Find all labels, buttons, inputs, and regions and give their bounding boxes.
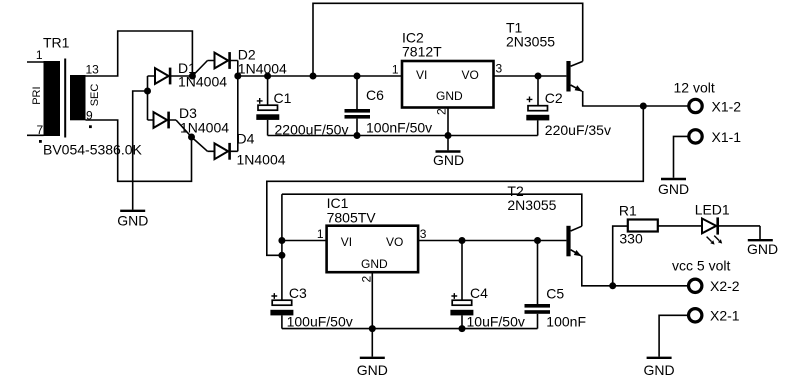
svg-text:2: 2 <box>435 108 449 115</box>
svg-text:3: 3 <box>496 62 503 76</box>
node junction 12V feed to C3 <box>278 252 285 259</box>
pad X2-2 <box>689 279 702 292</box>
svg-text:LED1: LED1 <box>695 202 730 218</box>
ground under IC2 <box>436 150 461 152</box>
wire LED1 to ground <box>759 226 761 239</box>
node junction D3-D4 <box>188 134 195 141</box>
svg-text:GND: GND <box>361 257 388 271</box>
ground under X1-1 <box>661 178 686 180</box>
capacitor C5 <box>525 241 551 329</box>
svg-text:7812T: 7812T <box>402 44 442 60</box>
wire top rail to T1 collector <box>313 3 583 76</box>
wire IC1 input vertical <box>281 194 283 300</box>
node junction C6 gnd <box>354 132 361 139</box>
ground under LED1 <box>748 239 773 241</box>
svg-text:220uF/35v: 220uF/35v <box>545 122 611 138</box>
wire X2-1 to ground <box>659 315 688 356</box>
svg-text:GND: GND <box>658 181 689 197</box>
svg-text:VI: VI <box>416 68 427 82</box>
svg-text:D4: D4 <box>237 131 255 147</box>
wire 12V down to IC1 input <box>267 106 644 255</box>
svg-text:TR1: TR1 <box>43 35 70 51</box>
node junction 12V feed <box>640 103 647 110</box>
wire TR1 pin1 <box>27 61 44 63</box>
transformer TR1 <box>39 59 92 143</box>
node junction C2 tap <box>535 73 542 80</box>
svg-text:GND: GND <box>357 362 388 378</box>
svg-text:X1-1: X1-1 <box>712 129 742 145</box>
pad X2-1 <box>689 309 702 322</box>
op-amp IC2 7812T regulator <box>402 61 494 108</box>
ground under X2-1 <box>647 357 672 359</box>
node junction top rail tap <box>310 73 317 80</box>
diode D2 <box>192 52 237 76</box>
svg-text:GND: GND <box>747 241 778 257</box>
svg-text:7805TV: 7805TV <box>327 209 377 225</box>
op-amp IC1 7805TV regulator <box>327 226 419 273</box>
pad X1-1 <box>689 130 702 143</box>
node junction 5V/R1 <box>609 282 616 289</box>
svg-text:SEC: SEC <box>89 84 101 107</box>
capacitor C4 <box>450 241 473 329</box>
svg-text:C2: C2 <box>545 90 563 106</box>
node junction IC1 gnd <box>369 325 376 332</box>
svg-text:100nF: 100nF <box>546 314 586 330</box>
wire IC1 output to T2 base <box>418 240 566 242</box>
svg-text:VI: VI <box>341 235 352 249</box>
capacitor C2 <box>526 76 549 136</box>
svg-text:2N3055: 2N3055 <box>507 197 556 213</box>
node junction D2/D4 cathodes <box>234 73 241 80</box>
svg-text:1: 1 <box>392 63 399 77</box>
svg-text:X2-1: X2-1 <box>710 308 740 324</box>
wire node to GND drop <box>133 91 148 210</box>
wire IC2 output to T1 base <box>494 75 567 77</box>
svg-text:vcc 5 volt: vcc 5 volt <box>672 257 730 273</box>
svg-text:1: 1 <box>317 227 324 241</box>
wire IC1 pin2 to ground <box>371 272 373 357</box>
wire pin9 to bridge AC2 <box>86 120 192 181</box>
svg-text:C1: C1 <box>274 90 292 106</box>
node junction IC2 gnd <box>445 132 452 139</box>
svg-text:330: 330 <box>619 231 643 247</box>
transistor T2 2N3055 <box>566 226 581 256</box>
svg-text:PRI: PRI <box>31 86 43 104</box>
svg-text:BV054-5386.0K: BV054-5386.0K <box>43 142 143 158</box>
capacitor C1 <box>256 76 279 136</box>
wire TR1 pin7 <box>27 134 44 136</box>
svg-text:1: 1 <box>36 48 43 62</box>
svg-text:VO: VO <box>462 68 479 82</box>
svg-text:2N3055: 2N3055 <box>506 34 555 50</box>
svg-text:VO: VO <box>386 235 403 249</box>
svg-text:X1-2: X1-2 <box>712 99 742 115</box>
diode D1 <box>148 68 193 85</box>
svg-text:X2-2: X2-2 <box>710 278 740 294</box>
wire + bus to IC2 input <box>238 75 402 77</box>
svg-text:100uF/50v: 100uF/50v <box>287 314 353 330</box>
svg-text:C5: C5 <box>546 286 564 302</box>
wire bridge minus node <box>147 76 149 120</box>
svg-text:C4: C4 <box>470 285 488 301</box>
node junction C4 gnd <box>459 325 466 332</box>
capacitor C6 <box>345 76 371 136</box>
diode D3 <box>148 112 192 137</box>
node junction D1-D2 <box>189 73 196 80</box>
node junction IC1 input <box>278 237 285 244</box>
node junction C6 tap <box>354 73 361 80</box>
svg-text:R1: R1 <box>619 203 637 219</box>
node junction C4 tap <box>459 237 466 244</box>
svg-text:100nF/50v: 100nF/50v <box>366 120 432 136</box>
svg-text:10uF/50v: 10uF/50v <box>467 314 525 330</box>
LED LED1 <box>702 217 760 244</box>
node junction C5 tap <box>534 237 541 244</box>
resistor R1 <box>613 220 702 286</box>
wire X1-1 to ground <box>674 136 689 177</box>
svg-text:C3: C3 <box>289 285 307 301</box>
diode D4 <box>192 137 238 160</box>
svg-text:1N4004: 1N4004 <box>180 120 229 136</box>
node junction bridge minus <box>144 88 151 95</box>
svg-text:2: 2 <box>360 276 374 283</box>
svg-text:1N4004: 1N4004 <box>178 74 227 90</box>
svg-text:1N4004: 1N4004 <box>238 60 287 76</box>
wire IC1 pin1 <box>282 240 327 242</box>
wire T1 emitter to 12V rail <box>583 91 688 106</box>
svg-text:1N4004: 1N4004 <box>237 152 286 168</box>
svg-text:12 volt: 12 volt <box>674 80 715 96</box>
svg-text:GND: GND <box>433 152 464 168</box>
ground under IC1 <box>360 357 385 359</box>
wire ground bus bottom section <box>282 328 538 330</box>
wire IC2 pin2 to ground <box>447 108 449 151</box>
ground under bridge <box>120 210 145 212</box>
transistor T1 2N3055 <box>566 61 582 92</box>
wire pin13 to bridge AC1 <box>86 31 193 76</box>
svg-text:GND: GND <box>117 213 148 229</box>
node junction C1 tap <box>264 73 271 80</box>
svg-text:GND: GND <box>436 89 463 103</box>
wire D2/D4 cathode vertical <box>237 61 239 152</box>
capacitor C3 <box>270 293 293 329</box>
svg-text:3: 3 <box>420 227 427 241</box>
svg-text:13: 13 <box>86 63 100 77</box>
pad X1-2 <box>689 99 702 112</box>
svg-text:C6: C6 <box>366 87 384 103</box>
wire T2 emitter to 5V rail <box>582 256 688 286</box>
svg-text:GND: GND <box>644 362 675 378</box>
wire IC1 rail to T2 collector <box>282 194 582 226</box>
wire ground bus top section <box>268 135 538 137</box>
